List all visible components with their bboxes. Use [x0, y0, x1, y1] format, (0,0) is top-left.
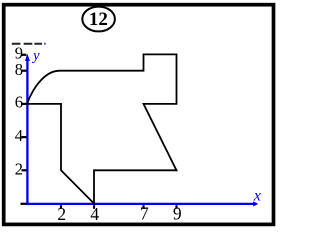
svg-text:y: y [31, 48, 40, 64]
svg-text:4: 4 [15, 126, 23, 145]
x tick 2 [60, 205, 62, 209]
y tick 9 [22, 54, 27, 56]
svg-text:6: 6 [15, 93, 23, 112]
polygon region outline with curved top-left edge [27, 54, 176, 203]
svg-text:9: 9 [173, 204, 182, 224]
y tick 8 [22, 70, 27, 72]
y tick 6 [22, 103, 27, 105]
svg-text:2: 2 [57, 204, 66, 224]
svg-text:8: 8 [15, 60, 23, 79]
y tick 4 [22, 136, 27, 138]
problem number badge ellipse [82, 7, 115, 32]
x tick 7 [142, 205, 144, 209]
x tick 4 [93, 205, 95, 209]
svg-text:4: 4 [90, 204, 99, 224]
svg-text:2: 2 [15, 159, 23, 178]
x-axis [26, 203, 255, 205]
svg-text:12: 12 [89, 9, 108, 30]
dashed line top-left [12, 43, 42, 45]
x-axis arrowhead [253, 201, 258, 206]
x tick 9 [175, 205, 177, 209]
y-axis [26, 57, 28, 206]
y-axis arrowhead [25, 54, 30, 61]
y tick 0 (origin) [21, 203, 27, 205]
dashed line end dot [44, 43, 46, 45]
svg-text:7: 7 [140, 204, 149, 224]
svg-text:9: 9 [15, 44, 23, 63]
svg-text:x: x [253, 188, 261, 205]
y tick 2 [22, 169, 27, 171]
outer frame (decorative) [4, 5, 274, 225]
